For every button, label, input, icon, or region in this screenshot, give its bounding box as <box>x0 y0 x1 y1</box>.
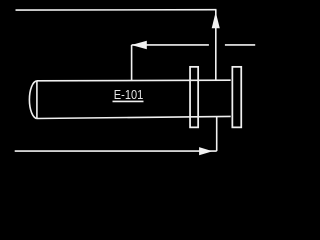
svg-text:E-101: E-101 <box>114 87 144 102</box>
